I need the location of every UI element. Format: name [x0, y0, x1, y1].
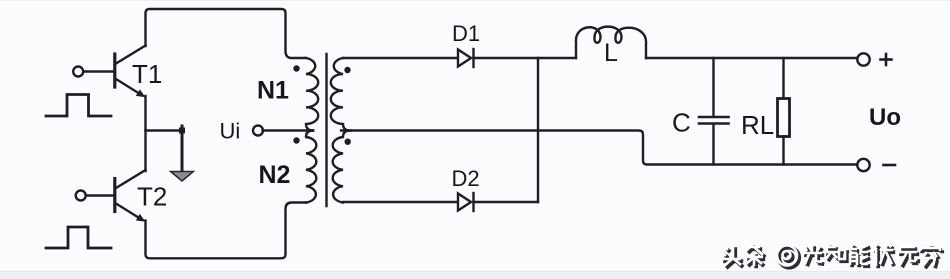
inductor L — [576, 27, 646, 58]
transformer secondary winding lower — [333, 131, 350, 203]
terminal Ui — [253, 126, 263, 136]
diode D1 — [458, 49, 474, 67]
svg-text:C: C — [672, 108, 691, 138]
pulse input signal 1 — [46, 95, 111, 117]
terminal + output — [857, 53, 869, 65]
wire: rectifier output junction (D1/D2 tie) — [537, 58, 539, 202]
wire: inductor to + output terminal — [646, 57, 857, 59]
polarity dot N1 — [293, 65, 299, 71]
wire: T2 emitter to transformer primary N2 bottom — [146, 203, 307, 259]
wire: T1 emitter to T2 collector — [144, 96, 146, 171]
resistor RL — [778, 58, 790, 165]
wire: secondary top to D1 anode — [343, 57, 457, 59]
label + — [881, 54, 892, 65]
polarity dot secondary upper — [344, 67, 350, 73]
svg-text:N1: N1 — [257, 77, 289, 105]
label - — [884, 164, 896, 167]
svg-text:Uo: Uo — [869, 104, 901, 131]
transistor T1 — [73, 46, 145, 98]
watermark — [721, 244, 942, 268]
svg-text:N2: N2 — [259, 161, 291, 189]
svg-text:D2: D2 — [452, 166, 480, 191]
diode D2 — [458, 193, 474, 211]
svg-text:D1: D1 — [452, 21, 480, 46]
transformer primary winding N2 — [306, 131, 316, 203]
svg-text:T1: T1 — [132, 59, 162, 89]
svg-text:T2: T2 — [137, 182, 167, 212]
wire: midpoint junction to ground — [146, 128, 186, 134]
polarity dot N2 — [293, 137, 299, 143]
terminal - output — [857, 159, 869, 171]
transformer core — [325, 54, 327, 206]
ground — [171, 126, 194, 181]
wire: secondary bottom to D2 anode — [343, 201, 457, 203]
transformer primary winding N1 — [306, 58, 318, 131]
svg-text:Ui: Ui — [220, 119, 241, 144]
svg-text:L: L — [604, 39, 618, 67]
pulse input signal 2 — [46, 227, 111, 248]
wire: D1 cathode to inductor L — [474, 57, 577, 59]
wire: Ui terminal to primary center tap — [263, 129, 314, 131]
polarity dot secondary lower — [345, 139, 351, 145]
capacitor C — [699, 58, 729, 165]
transformer secondary winding upper — [331, 58, 350, 131]
wire: secondary center tap to output return rail — [341, 131, 857, 165]
svg-text:RL: RL — [741, 110, 774, 140]
wire: T1 collector to transformer primary N1 top — [146, 9, 307, 58]
transistor T2 — [76, 170, 146, 222]
wire: D2 cathode to junction — [474, 201, 539, 203]
